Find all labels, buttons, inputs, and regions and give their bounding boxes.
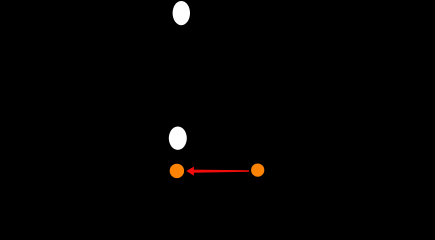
red arrowhead <box>186 167 194 176</box>
white blob top <box>173 1 190 25</box>
orange dot left <box>170 164 184 178</box>
orange dot right <box>251 164 264 177</box>
red arrow shaft <box>193 170 249 173</box>
white blob middle <box>169 127 187 150</box>
